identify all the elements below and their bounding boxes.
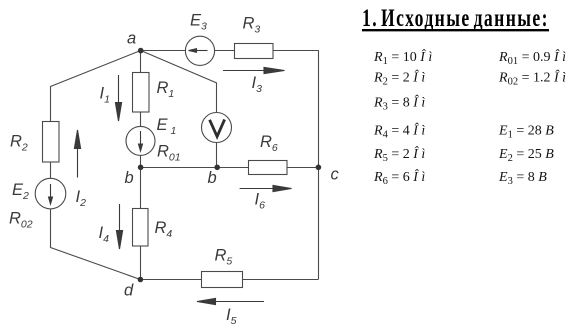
svg-text:I1: I1 xyxy=(100,85,110,106)
svg-text:R6 = 6 Î ì: R6 = 6 Î ì xyxy=(373,168,425,187)
svg-text:b: b xyxy=(125,169,134,187)
svg-text:R2 = 2 Î ì: R2 = 2 Î ì xyxy=(373,68,425,87)
svg-text:R01: R01 xyxy=(157,143,181,164)
svg-text:E1: E1 xyxy=(157,116,177,137)
svg-text:R3 = 8 Î ì: R3 = 8 Î ì xyxy=(373,94,425,113)
svg-text:I5: I5 xyxy=(226,306,237,327)
svg-text:R4: R4 xyxy=(155,219,173,240)
svg-text:I4: I4 xyxy=(99,224,110,245)
svg-text:R1 = 10 Î ì: R1 = 10 Î ì xyxy=(373,48,432,67)
svg-text:I6: I6 xyxy=(255,191,266,212)
svg-text:R1: R1 xyxy=(157,79,175,100)
svg-text:E3 = 8 В: E3 = 8 В xyxy=(498,170,547,187)
svg-text:R5: R5 xyxy=(215,247,233,268)
svg-text:R3: R3 xyxy=(243,15,261,36)
svg-text:R5 = 2 Î ì: R5 = 2 Î ì xyxy=(373,145,425,164)
svg-text:R6: R6 xyxy=(260,133,278,154)
svg-text:E2 = 25 В: E2 = 25 В xyxy=(498,147,554,164)
svg-text:a: a xyxy=(127,30,136,48)
svg-text:R02 = 1.2 Î ì: R02 = 1.2 Î ì xyxy=(498,68,566,87)
svg-text:b: b xyxy=(208,169,217,187)
svg-text:E2: E2 xyxy=(12,181,29,202)
svg-text:I3: I3 xyxy=(252,74,263,95)
svg-text:1. Исходные данные:: 1. Исходные данные: xyxy=(362,4,549,32)
svg-text:d: d xyxy=(124,282,134,300)
svg-text:E1 = 28 В: E1 = 28 В xyxy=(498,124,554,141)
svg-text:R2: R2 xyxy=(10,133,28,154)
svg-text:R01 = 0.9 Î ì: R01 = 0.9 Î ì xyxy=(498,48,566,67)
svg-text:R4 = 4 Î ì: R4 = 4 Î ì xyxy=(373,122,425,141)
svg-text:I2: I2 xyxy=(76,188,87,209)
svg-text:E3: E3 xyxy=(190,12,207,33)
svg-text:R02: R02 xyxy=(9,210,33,231)
svg-text:c: c xyxy=(331,166,340,184)
